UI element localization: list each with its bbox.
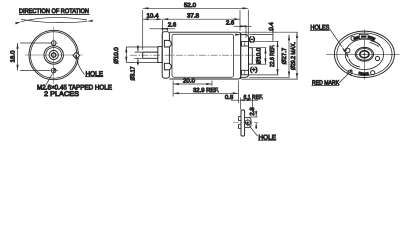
svg-text:(+): (+) — [250, 67, 258, 74]
svg-text:2.8: 2.8 — [249, 107, 256, 116]
svg-text:Ø10.0: Ø10.0 — [256, 47, 263, 64]
svg-text:2 PLACES: 2 PLACES — [44, 91, 79, 98]
svg-text:Ø10.0: Ø10.0 — [113, 47, 120, 64]
svg-text:52.0: 52.0 — [184, 2, 197, 9]
svg-text:2.6: 2.6 — [168, 22, 177, 29]
svg-text:(-): (-) — [249, 36, 255, 43]
svg-text:32.9 REF.: 32.9 REF. — [193, 87, 219, 94]
svg-text:20.0: 20.0 — [183, 78, 196, 85]
svg-text:37.8: 37.8 — [187, 13, 200, 20]
svg-text:6.1 REF.: 6.1 REF. — [244, 94, 264, 101]
svg-text:2.6: 2.6 — [226, 20, 235, 27]
svg-text:22.6 REF.: 22.6 REF. — [269, 45, 276, 67]
svg-text:0.8: 0.8 — [225, 94, 234, 101]
svg-text:Ø27.7: Ø27.7 — [281, 47, 288, 64]
svg-text:DIRECTION OF ROTATION: DIRECTION OF ROTATION — [19, 8, 89, 15]
svg-text:Ø3.17: Ø3.17 — [130, 66, 137, 81]
svg-text:0.4: 0.4 — [268, 22, 275, 31]
svg-text:16.0: 16.0 — [10, 50, 17, 63]
svg-text:10.4: 10.4 — [147, 13, 160, 20]
svg-text:Ø29.2 MAX.: Ø29.2 MAX. — [290, 42, 297, 70]
